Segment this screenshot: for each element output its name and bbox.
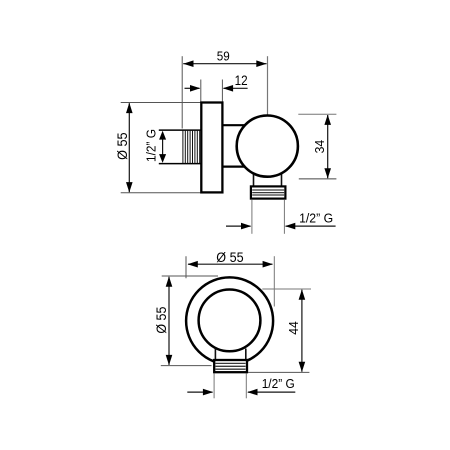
centerline of ball (right extension of dim 59) <box>267 56 269 146</box>
dimension Ø55 top line <box>188 263 273 265</box>
svg-text:1/2” G: 1/2” G <box>144 129 159 162</box>
dimension 59 left arrowhead <box>183 60 193 67</box>
inlet nipple outline <box>159 129 202 131</box>
svg-text:44: 44 <box>286 321 301 335</box>
extension lines of dim Ø55 (flange) <box>121 102 201 104</box>
svg-text:59: 59 <box>217 48 230 63</box>
extension lines below outlet block <box>213 374 215 399</box>
extension lines of front Ø55 (left dim) <box>162 275 218 277</box>
outlet threaded block (front view) <box>214 360 247 372</box>
svg-text:Ø 55: Ø 55 <box>115 132 130 160</box>
dimension 44 extension lines <box>262 288 311 290</box>
extension line left of dim 59 <box>181 56 183 128</box>
svg-text:12: 12 <box>235 73 248 88</box>
flange inner circle <box>199 290 261 352</box>
inlet nipple thread hatch <box>183 131 200 164</box>
dimension 34 extension lines <box>298 113 336 115</box>
dimension 59 right arrowhead <box>256 60 266 67</box>
dimension 12 left shaft and arrowhead <box>185 87 200 89</box>
svg-text:1/2” G: 1/2” G <box>262 376 295 391</box>
svg-text:Ø 55: Ø 55 <box>154 307 169 334</box>
outlet thread dim arrows (front view) <box>187 391 212 393</box>
svg-text:1/2” G: 1/2” G <box>299 211 333 226</box>
extension lines of dim 12 <box>200 80 202 102</box>
wall flange plate (side view) <box>201 103 222 193</box>
dimension 59 line <box>183 63 266 65</box>
neck between flange and ball <box>222 124 246 126</box>
dimension 34 line <box>327 115 329 178</box>
ball body <box>237 116 298 177</box>
outlet sides (front view, over circles) <box>214 349 216 361</box>
dimension 12 right shaft and arrowhead <box>224 87 248 89</box>
svg-text:Ø 55: Ø 55 <box>216 250 243 265</box>
dimension Ø55 left line <box>168 277 170 365</box>
dimension Ø55 bottom arrowhead <box>126 182 133 192</box>
dimension 44 line <box>301 290 303 372</box>
thread size arrow 1/2"G (vertical double arrow) <box>162 133 164 161</box>
outlet threaded nut <box>251 186 286 198</box>
outlet sides (front view) <box>214 348 216 361</box>
flange outer circle <box>186 277 273 364</box>
outlet neck below ball <box>253 173 255 187</box>
extension lines of front Ø55 (top dim) <box>185 256 187 278</box>
dimension Ø55 top arrowhead <box>126 103 133 113</box>
outlet thread dim arrows <box>226 225 251 227</box>
dimension Ø55 line <box>128 103 130 192</box>
svg-text:34: 34 <box>313 140 327 154</box>
extension lines below outlet nut <box>251 200 253 234</box>
